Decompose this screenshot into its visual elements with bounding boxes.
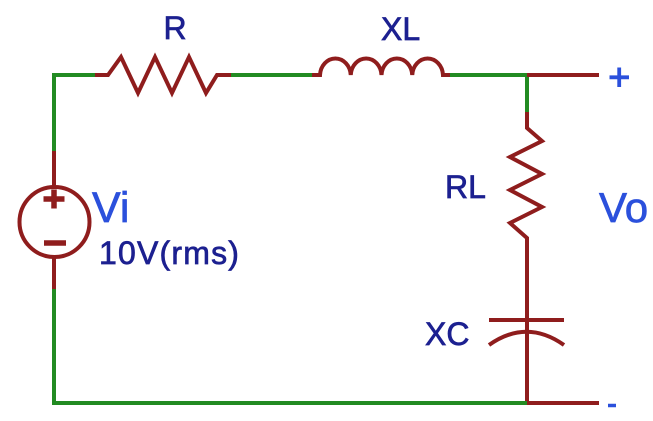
voltage source + mark [44,190,65,209]
wire XL to output node (green) with drop to RL [450,75,527,113]
wire bottom rail to - terminal (red) [527,401,599,405]
resistor R [95,57,231,93]
wire XC to bottom rail (red) [525,322,529,403]
wire source bottom lead (red) [52,258,56,291]
svg-text:XL: XL [381,11,420,47]
wire between R and XL (green) [231,73,312,77]
inductor XL [312,58,450,75]
wire output node to + terminal (red) [527,73,599,77]
wire top-left corner (green, node from source + to R) [54,75,95,152]
voltage source - mark [44,240,66,246]
svg-text:XC: XC [425,316,469,352]
wire RL to XC (red) [525,239,529,320]
svg-text:Vo: Vo [599,184,648,231]
wire bottom-left rail (green) [54,289,527,403]
voltage source Vi circle [20,187,90,257]
svg-text:R: R [163,10,186,46]
svg-text:RL: RL [445,169,486,205]
capacitor XC [489,320,564,345]
label + (output positive terminal) [610,68,630,88]
resistor RL [510,112,542,241]
svg-text:10V(rms): 10V(rms) [99,235,240,271]
svg-text:Vi: Vi [92,184,129,232]
wire source top lead (red) [52,151,56,186]
label - (output negative terminal) [608,404,616,408]
